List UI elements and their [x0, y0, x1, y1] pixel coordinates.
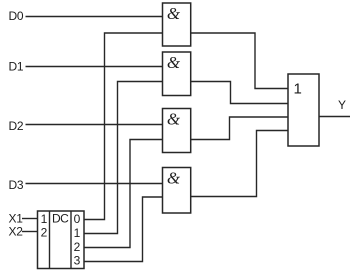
wire X2 to decoder pin 2	[22, 231, 38, 233]
decoder U6 DC	[38, 211, 85, 269]
wire AND gate 2 output to OR input 2	[191, 82, 288, 104]
wire decoder output 0 to AND gate 1	[84, 33, 163, 220]
OR gate U5	[288, 74, 319, 146]
wire D1 to AND gate 2 input	[26, 66, 163, 68]
svg-text:3: 3	[74, 254, 81, 268]
svg-text:1: 1	[74, 226, 81, 240]
wire D2 to AND gate 3 input	[26, 124, 163, 126]
AND gate U2	[163, 52, 191, 96]
AND gate U4	[163, 168, 191, 214]
svg-text:&: &	[167, 53, 181, 72]
svg-text:D1: D1	[9, 60, 24, 74]
wire D0 to AND gate 1 input	[26, 16, 163, 18]
wire AND gate 4 output to OR input 4	[191, 131, 288, 197]
AND gate U3	[163, 109, 191, 153]
svg-text:1: 1	[294, 81, 302, 98]
wire decoder output 3 to AND gate 4	[84, 197, 163, 262]
wire OR gate output to Y	[319, 116, 350, 118]
svg-text:D3: D3	[9, 178, 24, 192]
svg-text:DC: DC	[52, 212, 69, 226]
AND gate U1	[163, 3, 191, 46]
wire decoder output 2 to AND gate 3	[84, 140, 163, 248]
wire D3 to AND gate 4 input	[26, 183, 163, 185]
wire decoder output 1 to AND gate 2	[84, 82, 163, 234]
svg-text:&: &	[167, 169, 181, 188]
svg-text:2: 2	[41, 226, 48, 240]
svg-text:2: 2	[74, 240, 81, 254]
svg-text:D2: D2	[9, 119, 24, 133]
svg-text:1: 1	[41, 212, 48, 226]
svg-text:&: &	[167, 110, 181, 129]
svg-text:Y: Y	[338, 98, 346, 112]
wire AND gate 1 output to OR input 1	[191, 33, 288, 89]
svg-text:D0: D0	[9, 9, 24, 23]
wire X1 to decoder pin 1	[22, 218, 38, 220]
wire AND gate 3 output to OR input 3	[191, 117, 288, 140]
svg-text:0: 0	[74, 212, 81, 226]
svg-text:&: &	[167, 4, 181, 23]
svg-text:X2: X2	[9, 225, 24, 239]
svg-text:X1: X1	[9, 212, 24, 226]
